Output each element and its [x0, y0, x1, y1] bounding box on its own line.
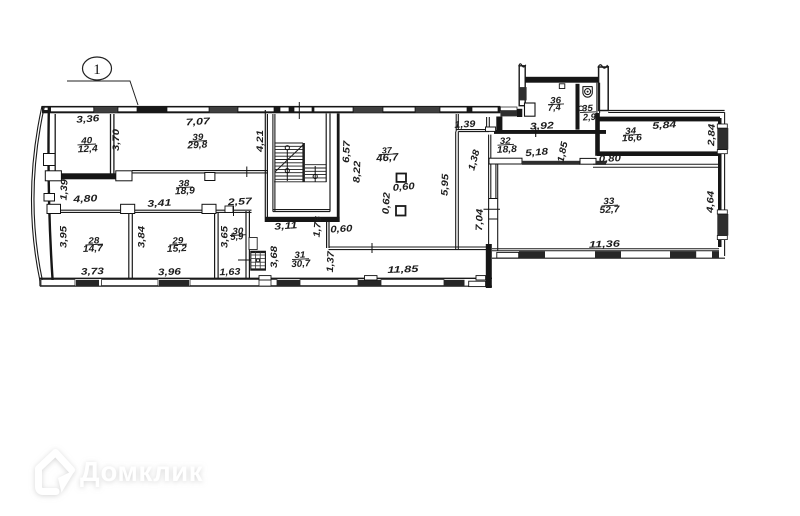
svg-text:3,73: 3,73 [81, 266, 105, 278]
window hatch right end [500, 111, 517, 117]
svg-text:1,39: 1,39 [454, 119, 476, 131]
tick on top wall [298, 102, 300, 119]
room 34 top wall [597, 117, 720, 122]
right wall window 4,64 [717, 214, 728, 236]
window rect [469, 281, 486, 286]
wall between rooms 28 and 29 [129, 213, 133, 279]
room 34 bottom wall [597, 151, 720, 156]
svg-text:2,57: 2,57 [226, 196, 253, 208]
tick 3,92 [535, 127, 537, 138]
svg-text:2,9: 2,9 [582, 112, 597, 124]
stairs lower flight [305, 165, 326, 178]
column square 0,60 [397, 174, 407, 182]
svg-text:7,04: 7,04 [474, 208, 486, 231]
column block [45, 171, 61, 181]
tower left pillar [517, 64, 527, 117]
watermark house logo [39, 453, 76, 493]
column block [116, 171, 132, 181]
svg-text:3,70: 3,70 [111, 128, 122, 151]
toilet room 35 [583, 87, 593, 98]
stairs break line [275, 145, 304, 173]
corridor 0,80 thin lines [593, 164, 719, 167]
svg-text:1,37: 1,37 [325, 250, 337, 272]
column block B left wall [44, 194, 55, 202]
dark jamb right of notch [496, 117, 502, 133]
top outer wall with windows [42, 102, 517, 119]
stairs arrows [285, 146, 317, 182]
room 40 bottom wall [57, 173, 132, 179]
svg-text:1,63: 1,63 [219, 267, 241, 279]
dimension tick [233, 206, 235, 217]
room 39 bottom wall [132, 171, 267, 173]
tower top wall [525, 77, 599, 83]
wall between rooms 40 and 39 [111, 114, 114, 174]
column block [205, 173, 215, 181]
svg-text:7,07: 7,07 [186, 116, 211, 128]
stairwell inner walls [273, 114, 330, 212]
svg-text:1: 1 [93, 62, 101, 78]
svg-text:0,60: 0,60 [392, 181, 416, 194]
stairwell right wall [329, 114, 331, 212]
door rect above shaft [249, 238, 257, 250]
room 30 right wall [246, 211, 249, 279]
right section bottom wall [492, 249, 725, 258]
notch on tower top wall [559, 84, 565, 89]
svg-text:Домклик: Домклик [80, 456, 203, 487]
tower right pillar [598, 65, 609, 111]
svg-text:3,41: 3,41 [147, 198, 172, 210]
svg-text:3,36: 3,36 [76, 113, 101, 126]
column blocks on wall [47, 204, 61, 213]
thick wall connector bottom [486, 244, 492, 288]
tower bottom wall rooms 36 35 [494, 130, 606, 134]
svg-text:5,84: 5,84 [652, 119, 678, 132]
wall between rooms 36 and 35 [576, 84, 580, 130]
window sill bumps [259, 276, 271, 280]
svg-text:3,68: 3,68 [269, 245, 280, 268]
svg-text:5,9: 5,9 [230, 231, 244, 243]
stairs upper flight [274, 143, 326, 182]
svg-text:4,64: 4,64 [705, 190, 717, 214]
stairwell bottom wall [265, 217, 339, 222]
svg-text:0,62: 0,62 [381, 191, 393, 214]
svg-text:18,8: 18,8 [497, 144, 518, 156]
right inner thick wall [718, 118, 722, 247]
svg-text:3,96: 3,96 [158, 266, 182, 278]
room 32 south band [489, 158, 606, 165]
right section top thin lines [608, 109, 724, 111]
door arc mark room 35 [579, 106, 584, 111]
dimension tick [246, 167, 248, 178]
room 37 right wall [456, 132, 459, 250]
left outer arc wall [31, 106, 44, 281]
svg-text:4,80: 4,80 [72, 193, 99, 205]
room 35 right wall [597, 83, 600, 113]
room 33 west wall [496, 165, 498, 251]
dimension texts [58, 95, 718, 278]
svg-text:3,65: 3,65 [219, 225, 230, 248]
svg-text:46,7: 46,7 [375, 151, 400, 165]
column square 0,62 [396, 206, 406, 216]
hatched shaft box [238, 251, 265, 270]
dimension tick [371, 243, 373, 253]
stairs flight divider [302, 143, 305, 182]
wall between rooms 29 and 30 [215, 213, 219, 279]
svg-text:5,95: 5,95 [440, 173, 452, 196]
room 40 left thin wall [54, 114, 56, 174]
svg-text:0,80: 0,80 [599, 153, 622, 165]
room 32 west wall [489, 135, 491, 244]
bottom outer wall left section [40, 276, 493, 287]
dimension rungs 7,04 [484, 199, 501, 220]
room 37 bottom wall [329, 247, 491, 250]
stairwell left outer wall [265, 110, 267, 222]
svg-text:8,22: 8,22 [352, 160, 364, 183]
leader circle 1 [67, 57, 138, 105]
svg-text:0,60: 0,60 [330, 223, 353, 235]
lower flight right edge line [325, 114, 327, 183]
svg-text:11,85: 11,85 [387, 264, 419, 276]
step notch left [487, 117, 490, 127]
svg-text:6,57: 6,57 [341, 140, 353, 163]
room number underlines [78, 104, 640, 260]
svg-text:5,18: 5,18 [525, 146, 550, 159]
svg-text:3,11: 3,11 [274, 220, 298, 233]
svg-text:2,84: 2,84 [706, 123, 718, 147]
room 37 top-right step [456, 114, 489, 132]
door leaf room 36 [525, 103, 536, 116]
left inner wall [48, 106, 52, 280]
svg-text:3,95: 3,95 [58, 225, 69, 248]
svg-text:3,92: 3,92 [530, 120, 555, 132]
svg-text:1,39: 1,39 [58, 178, 70, 200]
svg-text:4,21: 4,21 [255, 130, 266, 153]
right outer thin wall [724, 112, 726, 256]
svg-text:1,76: 1,76 [312, 215, 325, 238]
svg-text:3,84: 3,84 [136, 225, 147, 248]
right wall window 2,84 [717, 128, 728, 150]
wall above rooms 28 29 30 [50, 210, 252, 212]
svg-text:11,36: 11,36 [589, 239, 621, 251]
svg-text:16,6: 16,6 [622, 132, 643, 144]
wall below stairwell left step [327, 222, 329, 248]
column block A left wall [44, 154, 56, 166]
